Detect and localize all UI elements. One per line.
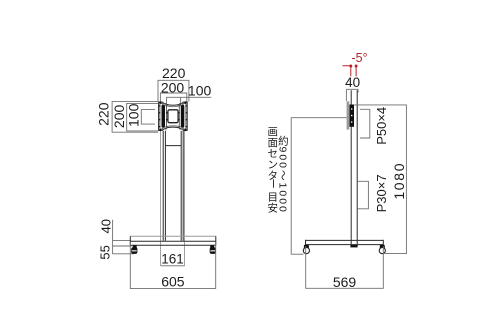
screen panel (gray) <box>347 101 350 129</box>
svg-text:605: 605 <box>161 274 185 290</box>
JP text line2: 約900〜1000 (vertical) <box>276 135 288 214</box>
svg-text:900〜1000: 900〜1000 <box>276 147 288 214</box>
JP text line1: 画面センター目安 (vertical) <box>266 126 278 214</box>
left caster side <box>303 245 309 254</box>
base bar side <box>306 240 384 245</box>
dim 161: box <box>161 265 185 267</box>
svg-text:220: 220 <box>95 102 111 126</box>
plate inner bend lines <box>162 103 185 129</box>
pole foot pad (black) <box>350 245 357 247</box>
right caster front <box>210 245 216 254</box>
center square <box>168 110 178 123</box>
pole side <box>351 90 357 245</box>
dim 220 top: line <box>158 80 189 101</box>
screen-center dim bracket <box>291 118 346 255</box>
svg-text:1080: 1080 <box>391 162 407 200</box>
svg-text:40: 40 <box>99 219 114 233</box>
mount bracket side (black) <box>349 105 354 127</box>
dim P50x4 bracket <box>360 109 370 138</box>
dim 100 left: line <box>141 110 155 125</box>
right caster side <box>379 245 385 254</box>
svg-text:P50×4: P50×4 <box>374 107 389 145</box>
left rail slot (black) <box>162 105 166 128</box>
right rail slot (black) <box>181 105 185 128</box>
column neck <box>163 131 183 241</box>
dim 100 top: line <box>167 97 212 106</box>
dim 200 left: line <box>127 103 159 130</box>
base bar front <box>130 235 216 237</box>
tilt -5 deg (red) <box>343 51 368 76</box>
svg-text:55: 55 <box>97 245 112 259</box>
svg-text:40: 40 <box>345 75 360 90</box>
plate corner dots <box>159 101 187 131</box>
svg-text:-5°: -5° <box>352 51 368 65</box>
dim 569 <box>306 246 384 288</box>
dim 40/55: vertical line <box>113 220 134 254</box>
left rail box <box>160 103 167 129</box>
left caster front <box>131 245 137 254</box>
dim P30x7 bracket <box>357 181 368 209</box>
column joint line <box>165 145 181 147</box>
dim 40 side: line <box>346 89 358 101</box>
svg-text:100: 100 <box>188 83 212 99</box>
dim 1080 <box>354 105 406 254</box>
161 extension lines (faint) <box>161 131 185 266</box>
rail side ticks right rail <box>178 105 187 127</box>
dim 220 left: line <box>112 101 158 132</box>
dim 605: box <box>130 242 215 289</box>
svg-text:P30×7: P30×7 <box>374 174 389 212</box>
svg-text:161: 161 <box>161 251 184 266</box>
dim 200 top: line <box>160 93 186 102</box>
VESA plate outline (bowtie) <box>159 102 188 130</box>
svg-text:100: 100 <box>126 103 142 127</box>
rail side ticks left rail <box>159 105 168 127</box>
svg-text:569: 569 <box>333 274 357 290</box>
right rail box <box>179 103 186 129</box>
